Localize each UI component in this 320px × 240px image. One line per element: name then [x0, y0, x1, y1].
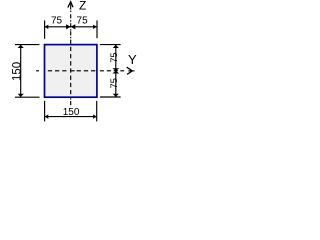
svg-text:75: 75 [77, 16, 89, 27]
svg-text:Z: Z [79, 0, 86, 13]
svg-text:Y: Y [128, 52, 137, 67]
svg-text:75: 75 [109, 78, 119, 88]
svg-text:150: 150 [63, 107, 80, 118]
svg-text:75: 75 [51, 15, 63, 26]
svg-text:75: 75 [109, 52, 119, 62]
svg-text:150: 150 [12, 62, 24, 81]
